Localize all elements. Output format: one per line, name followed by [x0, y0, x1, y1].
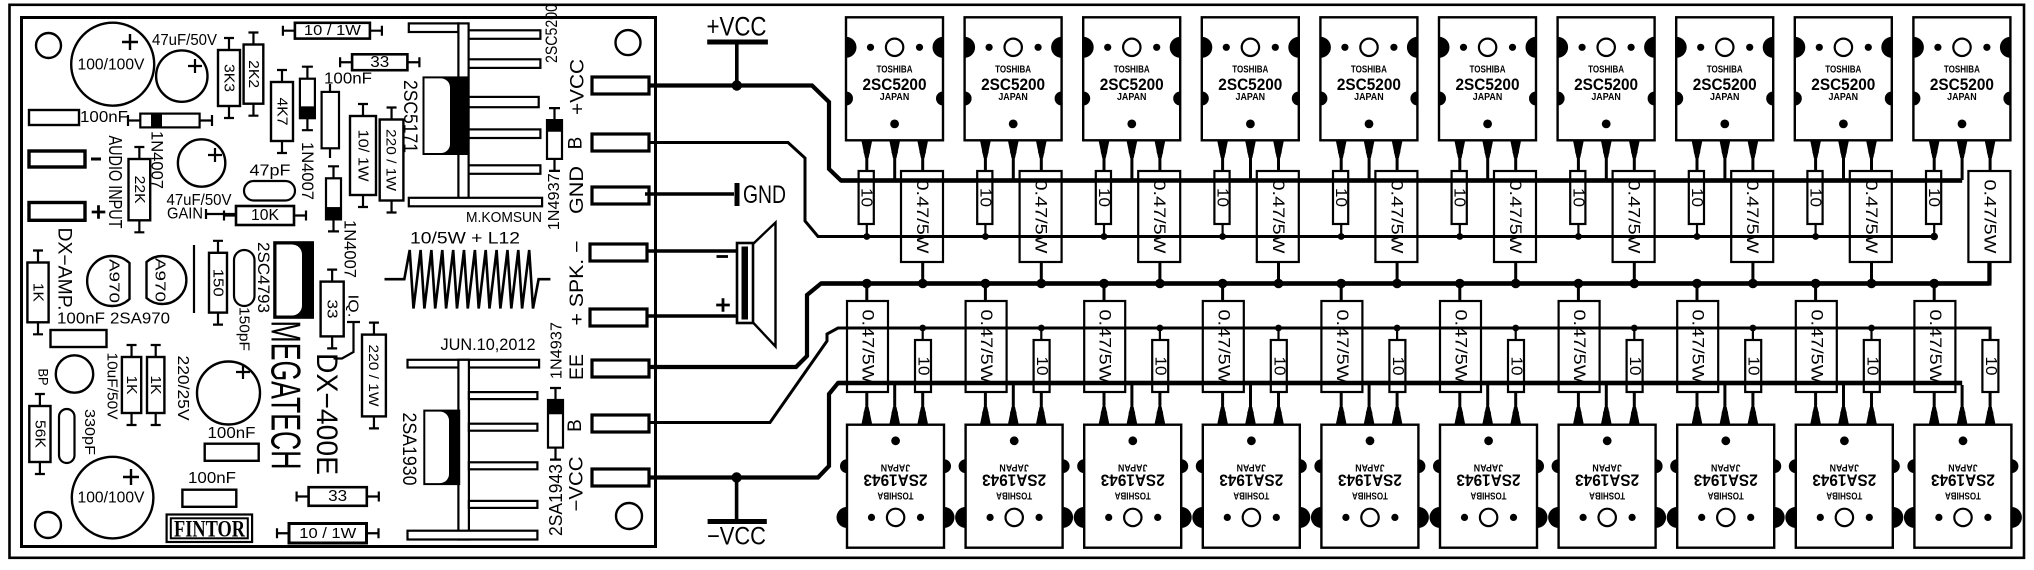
- svg-text:JAPAN: JAPAN: [1710, 91, 1740, 103]
- junction rail4 col 6: [1512, 325, 1519, 332]
- svg-text:0.47/5W: 0.47/5W: [1926, 310, 1944, 385]
- svg-text:22K: 22K: [131, 176, 148, 204]
- junction rail3 top col 3: [1155, 279, 1165, 289]
- transistor Q12 2SA1943: [955, 385, 1073, 548]
- svg-text:0.47/5W: 0.47/5W: [1689, 310, 1707, 385]
- transistor Q11 2SA1943: [837, 385, 955, 548]
- transistor Q5 2SC5200: [1320, 17, 1417, 180]
- junction rail3 bottom col 2: [981, 279, 991, 289]
- resistor R 10/1W top (10 / 1W): [283, 22, 382, 39]
- junction rail2 col 8: [1694, 233, 1701, 240]
- GAIN lead: [206, 209, 236, 219]
- junction rail3 top col 4: [1274, 279, 1284, 289]
- svg-text:0.47/5W: 0.47/5W: [859, 310, 877, 385]
- svg-text:0.47/5W: 0.47/5W: [1269, 180, 1287, 255]
- junction rail3 top col 6: [1511, 279, 1521, 289]
- transistor Q16 2SA1943: [1430, 385, 1548, 548]
- heatsink top: [409, 23, 542, 206]
- pad +VCC: [592, 77, 649, 94]
- diode D3 1N4007: [326, 166, 341, 231]
- svg-text:0.47/5W: 0.47/5W: [1387, 180, 1405, 255]
- mounting hole bottom-right: [616, 503, 642, 529]
- svg-text:JAPAN: JAPAN: [1237, 462, 1267, 474]
- transistor Q7 2SC5200: [1558, 17, 1655, 180]
- svg-text:47uF/50V: 47uF/50V: [152, 32, 217, 49]
- resistor 0.47/5W (emitter, bottom row col 1): [847, 283, 888, 392]
- svg-text:10/ 1W: 10/ 1W: [355, 130, 372, 183]
- svg-text:+VCC: +VCC: [567, 59, 588, 115]
- transistor Q20 2SA1943: [1904, 385, 2022, 548]
- resistor 0.47/5W (emitter, bottom row col 6): [1440, 283, 1481, 392]
- svg-text:0.47/5W: 0.47/5W: [1743, 180, 1761, 255]
- resistor 0.47/5W (emitter, top row col 4): [1257, 171, 1299, 283]
- svg-text:JAPAN: JAPAN: [1829, 91, 1859, 103]
- svg-text:JAPAN: JAPAN: [1118, 462, 1148, 474]
- svg-text:DX−400E: DX−400E: [310, 353, 343, 475]
- svg-text:150pF: 150pF: [236, 307, 253, 351]
- resistor 10 (base, top row col 9): [1807, 171, 1824, 237]
- wire EE to output rail (rail 3): [649, 262, 1989, 367]
- wire -SPK: [647, 249, 739, 252]
- junction rail3 bottom col 1: [862, 279, 872, 289]
- junction rail3 top col 1: [918, 279, 928, 289]
- svg-text:JAPAN: JAPAN: [1592, 462, 1622, 474]
- svg-text:JAPAN: JAPAN: [1947, 91, 1977, 103]
- transistor Q9 2SC5200: [1795, 17, 1892, 180]
- svg-text:EE: EE: [567, 354, 588, 380]
- svg-text:JAPAN: JAPAN: [1474, 462, 1504, 474]
- -VCC power symbol: [707, 472, 767, 550]
- +VCC power symbol: [707, 12, 768, 91]
- junction rail3 top col 9: [1867, 279, 1877, 289]
- junction rail3 bottom col 8: [1692, 279, 1702, 289]
- resistor R 220/1W a (220 / 1W): [380, 108, 404, 213]
- speaker minus mark: [717, 255, 729, 258]
- resistor 10 (base, top row col 10): [1925, 171, 1942, 237]
- svg-text:10K: 10K: [251, 207, 279, 224]
- svg-text:TOSHIBA: TOSHIBA: [996, 489, 1032, 501]
- junction rail3 bottom col 10: [1929, 279, 1939, 289]
- junction rail4 col 3: [1157, 325, 1164, 332]
- junction rail3 top col 5: [1392, 279, 1402, 289]
- svg-text:2SA970: 2SA970: [110, 311, 170, 328]
- svg-text:10: 10: [915, 357, 932, 376]
- transistor Q13 2SA1943: [1074, 385, 1192, 548]
- svg-text:10: 10: [1270, 357, 1287, 376]
- collector bus rail 1 redraw: [841, 178, 1962, 183]
- svg-text:TOSHIBA: TOSHIBA: [1114, 63, 1150, 75]
- wire B2 to bottom base rail (rail 4): [649, 328, 1990, 423]
- diode D4 1N4937: [547, 108, 562, 171]
- svg-text:100nF: 100nF: [80, 109, 128, 126]
- pad B: [592, 134, 649, 151]
- junction rail2 col 10 end: [1930, 233, 1938, 241]
- svg-text:0.47/5W: 0.47/5W: [1807, 310, 1825, 385]
- svg-text:10 / 1W: 10 / 1W: [299, 525, 357, 542]
- resistor R 10K (10K): [224, 206, 306, 225]
- svg-text:10: 10: [1807, 188, 1824, 207]
- svg-text:0.47/5W: 0.47/5W: [1150, 180, 1168, 255]
- resistor 0.47/5W (emitter, bottom row col 7): [1559, 283, 1600, 392]
- resistor 0.47/5W (emitter, bottom row col 5): [1321, 283, 1362, 392]
- svg-text:GND: GND: [567, 166, 588, 214]
- svg-text:220 / 1W: 220 / 1W: [384, 129, 400, 192]
- wire GND: [645, 181, 786, 209]
- resistor 10 (base, top row col 2): [976, 171, 993, 237]
- svg-text:56K: 56K: [31, 420, 48, 448]
- junction rail4 col 4: [1275, 325, 1282, 332]
- resistor R 33 top (33): [340, 54, 419, 71]
- capacitor 100nF e: [182, 490, 236, 507]
- svg-text:1N4937: 1N4937: [546, 173, 563, 230]
- svg-text:2SA1943: 2SA1943: [546, 464, 566, 536]
- svg-text:2SC5200: 2SC5200: [542, 4, 561, 63]
- plus mark: [92, 205, 106, 219]
- svg-text:TOSHIBA: TOSHIBA: [995, 63, 1031, 75]
- svg-text:JAPAN: JAPAN: [1591, 91, 1621, 103]
- svg-text:JAPAN: JAPAN: [999, 462, 1029, 474]
- transistor Q2 2SC5200: [965, 17, 1062, 180]
- svg-text:JAPAN: JAPAN: [1354, 91, 1384, 103]
- svg-text:150: 150: [210, 269, 227, 297]
- mounting hole bottom-left: [35, 512, 61, 538]
- resistor 10 (base, bottom row col 7): [1626, 327, 1643, 392]
- transistor 2SA1930: [423, 410, 460, 486]
- pad EE: [592, 360, 649, 377]
- junction rail2 col 9: [1812, 233, 1819, 240]
- svg-text:10: 10: [858, 188, 875, 207]
- resistor 10 (base, bottom row col 9): [1863, 327, 1880, 392]
- transistor Q3 2SC5200: [1083, 17, 1180, 180]
- svg-text:JAPAN: JAPAN: [998, 91, 1028, 103]
- svg-text:3K3: 3K3: [221, 64, 238, 92]
- junction rail4 col 8: [1750, 325, 1757, 332]
- audio input pad 1: [29, 151, 85, 167]
- svg-text:JAPAN: JAPAN: [1117, 91, 1147, 103]
- capacitor 47pF: [244, 181, 295, 201]
- svg-text:JUN.10,2012: JUN.10,2012: [441, 335, 536, 354]
- resistor R 33 bottom (33): [297, 487, 379, 506]
- svg-text:MEGATECH: MEGATECH: [263, 321, 310, 470]
- transistor Q4 2SC5200: [1202, 17, 1299, 180]
- resistor 10 (base, top row col 6): [1451, 171, 1468, 237]
- svg-text:JAPAN: JAPAN: [1830, 462, 1860, 474]
- svg-text:JAPAN: JAPAN: [1355, 462, 1385, 474]
- resistor R 1K b (1K): [122, 345, 141, 425]
- resistor 10 (base, bottom row col 4): [1270, 327, 1287, 392]
- svg-text:TOSHIBA: TOSHIBA: [1588, 63, 1624, 75]
- svg-text:10: 10: [1925, 188, 1942, 207]
- svg-text:1N4007: 1N4007: [148, 131, 167, 189]
- svg-text:100nF: 100nF: [324, 71, 372, 88]
- inductor L12 10/5W: [385, 250, 551, 309]
- junction rail3 bottom col 3: [1099, 279, 1109, 289]
- resistor R 10/1W vert (10/ 1W): [350, 104, 376, 207]
- svg-text:0.47/5W: 0.47/5W: [977, 310, 995, 385]
- svg-text:2K2: 2K2: [245, 60, 262, 88]
- resistor 10 (base, bottom row col 2): [1033, 327, 1050, 392]
- transistor Q19 2SA1943: [1785, 385, 1903, 548]
- minus mark: [91, 158, 101, 161]
- resistor 0.47/5W (emitter, top row col 3): [1138, 171, 1180, 283]
- pad B2: [592, 415, 649, 432]
- svg-text:10uF/50V: 10uF/50V: [104, 353, 121, 420]
- svg-text:1K: 1K: [147, 376, 164, 395]
- transistor Q18 2SA1943: [1667, 385, 1785, 548]
- svg-text:TOSHIBA: TOSHIBA: [1944, 63, 1980, 75]
- svg-text:100nF: 100nF: [208, 425, 256, 442]
- resistor 0.47/5W (emitter, top row col 9): [1850, 171, 1892, 283]
- diode D2 1N4007: [300, 67, 315, 131]
- resistor R 220/1W b (220 / 1W): [362, 323, 386, 429]
- svg-text:10: 10: [1389, 357, 1406, 376]
- svg-text:TOSHIBA: TOSHIBA: [1945, 489, 1981, 501]
- transistor Q14 2SA1943: [1192, 385, 1310, 548]
- audio input pad 2: [29, 203, 85, 221]
- svg-text:BP: BP: [36, 369, 52, 386]
- speaker: [737, 223, 776, 347]
- svg-text:AUDIO INPUT: AUDIO INPUT: [105, 136, 125, 229]
- PCB board outline: [22, 18, 656, 547]
- svg-text:1N4937: 1N4937: [549, 322, 566, 379]
- mounting hole top-left: [36, 33, 61, 58]
- svg-text:10: 10: [1508, 357, 1525, 376]
- junction rail3 top col 2: [1037, 279, 1047, 289]
- svg-text:2SC4793: 2SC4793: [254, 242, 273, 313]
- svg-text:33: 33: [370, 54, 389, 71]
- transistor 2SC4793: [274, 242, 313, 317]
- svg-text:TOSHIBA: TOSHIBA: [1707, 489, 1743, 501]
- svg-text:100nF: 100nF: [188, 470, 236, 487]
- svg-text:1N4007: 1N4007: [340, 220, 359, 278]
- capacitor 150pF: [234, 250, 255, 306]
- svg-text:10 / 1W: 10 / 1W: [304, 22, 362, 39]
- transistor Q17 2SA1943: [1548, 385, 1666, 548]
- resistor 0.47/5W (emitter, top row col 2): [1020, 171, 1062, 283]
- svg-text:10: 10: [1095, 188, 1112, 207]
- junction rail4 col 7: [1631, 325, 1638, 332]
- svg-text:0.47/5W: 0.47/5W: [913, 180, 931, 255]
- transistor Q 2SA970 a: [87, 256, 129, 306]
- resistor 0.47/5W (emitter, top row col 5): [1375, 171, 1417, 283]
- svg-text:TOSHIBA: TOSHIBA: [1707, 63, 1743, 75]
- svg-text:GND: GND: [743, 181, 786, 209]
- svg-text:0.47/5W: 0.47/5W: [1506, 180, 1524, 255]
- resistor 10 (base, bottom row col 10): [1982, 327, 1999, 392]
- svg-text:10: 10: [1569, 188, 1586, 207]
- junction rail3 bottom col 4: [1218, 279, 1228, 289]
- svg-text:TOSHIBA: TOSHIBA: [1232, 63, 1268, 75]
- junction rail3 bottom col 9: [1811, 279, 1821, 289]
- resistor 10 (base, top row col 1): [858, 171, 875, 237]
- svg-text:10: 10: [1745, 357, 1762, 376]
- svg-text:TOSHIBA: TOSHIBA: [877, 63, 913, 75]
- svg-text:1K: 1K: [30, 283, 47, 302]
- svg-text:0.47/5W: 0.47/5W: [1096, 310, 1114, 385]
- svg-text:B: B: [565, 419, 586, 432]
- resistor 0.47/5W (emitter, top row col 8): [1731, 171, 1773, 283]
- capacitor C5 220/25V: [197, 362, 260, 425]
- svg-text:220 / 1W: 220 / 1W: [366, 345, 382, 408]
- FINTOR logo: [167, 515, 253, 543]
- svg-text:A970: A970: [106, 259, 123, 303]
- svg-text:100/100V: 100/100V: [78, 490, 145, 507]
- resistor 10 (base, bottom row col 1): [915, 327, 932, 392]
- resistor 10 (base, top row col 4): [1214, 171, 1231, 237]
- junction rail4 col 9: [1868, 325, 1875, 332]
- speaker plus mark: [716, 298, 730, 312]
- svg-text:TOSHIBA: TOSHIBA: [877, 489, 913, 501]
- svg-text:2SC5171: 2SC5171: [399, 80, 420, 153]
- resistor R 2K2 (2K2): [244, 33, 264, 116]
- svg-text:+VCC: +VCC: [707, 12, 767, 42]
- junction rail2 col 6: [1456, 233, 1463, 240]
- transistor 2SC5171: [423, 76, 469, 155]
- svg-text:JAPAN: JAPAN: [1236, 91, 1266, 103]
- resistor 0.47/5W (emitter, bottom row col 9): [1796, 283, 1837, 392]
- svg-text:0.47/5W: 0.47/5W: [1452, 310, 1470, 385]
- pad +SPK: [590, 309, 647, 326]
- resistor R 1K c (1K): [147, 345, 164, 425]
- diode D1 1N4007: [128, 114, 212, 128]
- resistor 0.47/5W (emitter, bottom row col 2): [966, 283, 1007, 392]
- transistor Q8 2SC5200: [1676, 17, 1773, 180]
- svg-text:10: 10: [1033, 357, 1050, 376]
- svg-text:2SA1930: 2SA1930: [398, 413, 419, 486]
- svg-text:TOSHIBA: TOSHIBA: [1825, 63, 1861, 75]
- svg-text:JAPAN: JAPAN: [1473, 91, 1503, 103]
- capacitor 100nF b: [51, 330, 107, 347]
- svg-text:TOSHIBA: TOSHIBA: [1470, 489, 1506, 501]
- base rail 4 redraw: [838, 327, 1990, 330]
- resistor R 1K a (1K): [27, 251, 48, 335]
- wire +VCC to collector bus (rail 1): [649, 86, 1962, 181]
- resistor 10 (base, top row col 8): [1688, 171, 1705, 237]
- capacitor C3 47uF/50V GAIN: [178, 139, 225, 186]
- transistor Q15 2SA1943: [1311, 385, 1429, 548]
- svg-text:10: 10: [1152, 357, 1169, 376]
- capacitor 330pF: [59, 409, 75, 463]
- wire IQ: [334, 322, 361, 359]
- svg-text:10: 10: [1982, 357, 1999, 376]
- resistor R 10/1W bottom (10 / 1W): [277, 524, 379, 544]
- junction rail4 col 5: [1394, 325, 1401, 332]
- transistor Q 2SA970 b: [147, 256, 187, 304]
- wire: [193, 245, 195, 313]
- resistor 10 (base, top row col 7): [1569, 171, 1586, 237]
- svg-text:TOSHIBA: TOSHIBA: [1826, 489, 1862, 501]
- svg-text:10: 10: [1626, 357, 1643, 376]
- junction rail2 col 2: [982, 233, 989, 240]
- pad -VCC: [592, 469, 649, 486]
- junction rail4 col 1: [919, 325, 926, 332]
- capacitor C2 47uF/50V: [156, 50, 207, 101]
- transistor Q6 2SC5200: [1439, 17, 1536, 180]
- svg-text:TOSHIBA: TOSHIBA: [1352, 489, 1388, 501]
- svg-text:FINTOR: FINTOR: [174, 516, 245, 541]
- junction rail2 col 1: [863, 233, 870, 240]
- diode D5 1N4937: [548, 388, 563, 460]
- svg-text:TOSHIBA: TOSHIBA: [1470, 63, 1506, 75]
- capacitor C1 100/100V: [71, 23, 154, 106]
- resistor 0.47/5W (emitter, top row col 7): [1613, 171, 1655, 283]
- mounting hole top-right: [616, 30, 641, 55]
- resistor 10 (base, bottom row col 5): [1389, 327, 1406, 392]
- junction rail3 bottom col 6: [1455, 279, 1465, 289]
- svg-text:100/100V: 100/100V: [78, 57, 145, 74]
- transistor Q1 2SC5200: [846, 17, 943, 180]
- collector bus rail 5 redraw: [838, 381, 1962, 386]
- svg-text:1K: 1K: [123, 376, 140, 395]
- resistor 10 (base, top row col 3): [1095, 171, 1112, 237]
- resistor 0.47/5W (emitter, bottom row col 3): [1084, 283, 1125, 392]
- capacitor C4 10uF/50V (BP): [56, 355, 93, 392]
- junction rail2 col 3: [1101, 233, 1108, 240]
- svg-text:−VCC: −VCC: [707, 523, 766, 551]
- resistor 0.47/5W (emitter, top row col 1): [901, 171, 943, 283]
- svg-text:0.47/5W: 0.47/5W: [1333, 310, 1351, 385]
- capacitor 100nF c: [322, 84, 339, 158]
- svg-text:TOSHIBA: TOSHIBA: [1589, 489, 1625, 501]
- svg-text:10: 10: [976, 188, 993, 207]
- pad GND: [592, 187, 649, 204]
- svg-text:10: 10: [1214, 188, 1231, 207]
- capacitor 100nF a: [29, 110, 79, 125]
- svg-text:TOSHIBA: TOSHIBA: [1351, 63, 1387, 75]
- wire -VCC to bottom collector bus (rail 5): [649, 383, 1962, 478]
- junction rail4 col 2: [1038, 325, 1045, 332]
- resistor R 150 (150): [209, 241, 227, 325]
- svg-text:1N4007: 1N4007: [298, 142, 317, 200]
- svg-text:10/5W + L12: 10/5W + L12: [410, 229, 520, 248]
- svg-text:330pF: 330pF: [81, 409, 98, 455]
- capacitor C6 100/100V: [72, 457, 154, 539]
- svg-text:IQ.: IQ.: [344, 295, 361, 318]
- svg-text:JAPAN: JAPAN: [881, 462, 911, 474]
- svg-text:B: B: [566, 137, 587, 150]
- heatsink bottom: [408, 360, 540, 540]
- junction rail3 top col 7: [1630, 279, 1640, 289]
- svg-text:0.47/5W: 0.47/5W: [1980, 180, 1998, 255]
- svg-text:JAPAN: JAPAN: [880, 91, 910, 103]
- resistor R 33 (IQ) (33): [321, 270, 344, 349]
- svg-text:10: 10: [1332, 188, 1349, 207]
- svg-text:0.47/5W: 0.47/5W: [1570, 310, 1588, 385]
- resistor R 3K3 (3K3): [218, 38, 240, 118]
- junction rail2 col 7: [1575, 233, 1582, 240]
- wire B to top base rail (rail 2): [649, 143, 1934, 237]
- junction rail2 col 4: [1219, 233, 1226, 240]
- resistor 0.47/5W (emitter, top row col 10): [1968, 171, 2010, 283]
- svg-text:A970: A970: [152, 258, 169, 302]
- svg-text:−VCC: −VCC: [566, 457, 587, 512]
- wire +SPK: [647, 314, 739, 317]
- svg-text:JAPAN: JAPAN: [1711, 462, 1741, 474]
- resistor 10 (base, bottom row col 6): [1508, 327, 1525, 392]
- svg-text:0.47/5W: 0.47/5W: [1214, 310, 1232, 385]
- svg-text:47pF: 47pF: [250, 163, 291, 180]
- capacitor 100nF d: [205, 444, 259, 461]
- pad -SPK: [590, 244, 647, 261]
- resistor 0.47/5W (emitter, bottom row col 4): [1203, 283, 1244, 392]
- svg-text:220/25V: 220/25V: [174, 356, 191, 422]
- junction rail3 bottom col 5: [1336, 279, 1346, 289]
- junction rail3 top col 8: [1748, 279, 1758, 289]
- svg-text:+ SPK. −: + SPK. −: [567, 241, 588, 326]
- svg-text:M.KOMSUN: M.KOMSUN: [466, 209, 542, 226]
- resistor 10 (base, bottom row col 3): [1152, 327, 1169, 392]
- base rail 2 redraw: [818, 235, 1934, 238]
